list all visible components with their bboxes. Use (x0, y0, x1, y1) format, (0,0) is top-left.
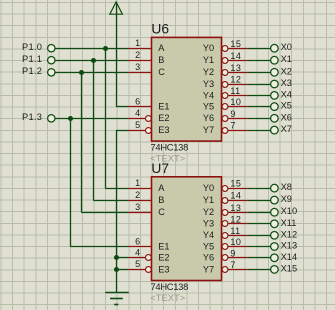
svg-text:Y7: Y7 (203, 264, 214, 274)
svg-text:14: 14 (230, 191, 241, 201)
svg-text:E3: E3 (158, 125, 169, 135)
wire Y4 to X4 (247, 95, 270, 97)
svg-text:P1.3: P1.3 (22, 112, 42, 122)
wire Y2 to X10 (247, 212, 270, 214)
svg-text:E1: E1 (158, 102, 169, 112)
pin 4 U7.E2 (129, 248, 170, 263)
svg-text:X3: X3 (281, 78, 292, 88)
svg-text:10: 10 (230, 97, 241, 107)
pin 6 U6.E1 (129, 96, 170, 111)
svg-text:Y3: Y3 (203, 219, 214, 229)
svg-text:Y1: Y1 (203, 55, 214, 65)
IC U6 74HC138 body (152, 37, 222, 141)
pin 2 U6.B (129, 50, 165, 65)
wire branch down to U7.A (105, 48, 128, 188)
svg-text:B: B (158, 195, 164, 205)
pin 12 U7.Y3 (203, 214, 247, 228)
svg-text:E1: E1 (158, 241, 169, 251)
pin 2 U7.B (129, 190, 165, 205)
wire VCC to U6.E1 (116, 3, 129, 107)
svg-text:14: 14 (230, 51, 241, 61)
svg-text:Y2: Y2 (203, 67, 214, 77)
pin 3 U6.C (129, 62, 166, 77)
svg-text:X1: X1 (281, 54, 292, 64)
svg-text:13: 13 (230, 203, 241, 213)
svg-text:Y0: Y0 (203, 43, 214, 53)
wire Y6 to X6 (247, 118, 270, 120)
terminal X13 (271, 241, 298, 251)
junction gnd net U7.E2 (114, 255, 119, 260)
terminal X5 (271, 101, 292, 111)
svg-text:10: 10 (230, 237, 241, 247)
pin 9 U7.Y6 (203, 248, 247, 262)
terminal X0 (271, 42, 292, 52)
terminal X15 (271, 263, 298, 273)
pin 10 U6.Y5 (203, 97, 247, 111)
junction P1.3 net (68, 116, 73, 121)
svg-text:P1.0: P1.0 (22, 42, 42, 52)
svg-text:7: 7 (230, 260, 235, 270)
pin 12 U6.Y3 (203, 75, 247, 89)
svg-text:74HC138: 74HC138 (151, 141, 189, 152)
svg-text:74HC138: 74HC138 (151, 281, 189, 292)
pin 6 U7.E1 (129, 236, 170, 251)
pin 15 U6.Y0 (203, 39, 247, 53)
svg-text:X14: X14 (281, 252, 298, 262)
pin 4 U6.E2 (129, 108, 170, 123)
svg-text:B: B (158, 55, 164, 65)
pin 11 U6.Y4 (203, 86, 247, 100)
terminal P1.2 (22, 66, 55, 76)
svg-text:X7: X7 (281, 124, 292, 134)
junction gnd net U7.E3 (114, 267, 119, 272)
svg-text:Y6: Y6 (203, 253, 214, 263)
svg-text:X8: X8 (281, 182, 292, 192)
svg-text:X10: X10 (281, 206, 298, 216)
svg-text:12: 12 (230, 214, 241, 224)
pin 13 U6.Y2 (203, 63, 247, 77)
terminal P1.0 (22, 42, 55, 52)
pin 5 U7.E3 (129, 259, 170, 274)
pin 3 U7.C (129, 202, 166, 217)
pin 15 U7.Y0 (203, 179, 247, 193)
svg-text:3: 3 (135, 202, 140, 212)
svg-text:15: 15 (230, 179, 241, 189)
terminal P1.1 (22, 54, 55, 64)
svg-text:9: 9 (230, 248, 235, 258)
wire Y3 to X3 (247, 84, 270, 86)
svg-text:X12: X12 (281, 229, 298, 239)
wire branch down to U7.E1 (70, 118, 129, 246)
wire Y7 to X15 (247, 269, 270, 271)
svg-text:P1.1: P1.1 (22, 54, 42, 64)
wire Y1 to X9 (247, 200, 270, 202)
wire P1.3 to U6.E2 (55, 118, 129, 120)
svg-text:A: A (158, 43, 165, 53)
wire Y2 to X2 (247, 72, 270, 74)
svg-text:1: 1 (135, 178, 140, 188)
svg-text:C: C (158, 67, 165, 77)
ground (105, 293, 129, 305)
pin 10 U7.Y5 (203, 237, 247, 251)
terminal X4 (271, 89, 292, 99)
svg-text:P1.2: P1.2 (22, 66, 42, 76)
wire Y6 to X14 (247, 257, 270, 259)
wire Y5 to X13 (247, 246, 270, 248)
svg-text:Y1: Y1 (203, 195, 214, 205)
pin 11 U7.Y4 (203, 226, 247, 240)
wire Y7 to X7 (247, 130, 270, 132)
svg-text:12: 12 (230, 75, 241, 85)
wire Y0 to X8 (247, 188, 270, 190)
wire ground net U6.E3 / U7.E2 / U7.E3 (116, 130, 129, 292)
terminal X10 (271, 206, 298, 216)
pin 7 U6.Y7 (203, 121, 247, 135)
svg-text:13: 13 (230, 63, 241, 73)
terminal X9 (271, 194, 292, 204)
svg-text:9: 9 (230, 109, 235, 119)
IC U7 74HC138 body (152, 177, 222, 281)
svg-text:Y0: Y0 (203, 183, 214, 193)
wire P1.2 to U6.C (55, 72, 129, 74)
svg-text:E2: E2 (158, 253, 169, 263)
svg-text:X0: X0 (281, 42, 292, 52)
svg-text:U7: U7 (151, 161, 169, 176)
svg-text:U6: U6 (151, 22, 169, 37)
svg-text:6: 6 (135, 236, 140, 246)
svg-text:5: 5 (135, 120, 140, 130)
svg-text:4: 4 (135, 108, 140, 118)
svg-text:Y3: Y3 (203, 79, 214, 89)
junction C net (79, 70, 84, 75)
svg-text:X5: X5 (281, 101, 292, 111)
terminal X12 (271, 229, 298, 239)
svg-text:Y6: Y6 (203, 113, 214, 123)
svg-text:A: A (158, 183, 165, 193)
svg-text:E3: E3 (158, 264, 169, 274)
power symbol VCC (110, 2, 123, 14)
svg-text:Y4: Y4 (203, 90, 214, 100)
svg-text:7: 7 (230, 121, 235, 131)
svg-text:15: 15 (230, 39, 241, 49)
pin 14 U6.Y1 (203, 51, 247, 65)
svg-text:E2: E2 (158, 113, 169, 123)
svg-text:X9: X9 (281, 194, 292, 204)
svg-text:3: 3 (135, 62, 140, 72)
svg-text:11: 11 (230, 86, 240, 96)
terminal X7 (271, 124, 292, 134)
svg-text:X4: X4 (281, 89, 292, 99)
svg-text:Y7: Y7 (203, 125, 214, 135)
svg-text:4: 4 (135, 248, 140, 258)
svg-text:Y2: Y2 (203, 207, 214, 217)
wire Y3 to X11 (247, 223, 270, 225)
wire Y0 to X0 (247, 48, 270, 50)
pin 5 U6.E3 (129, 120, 170, 135)
junction B net (91, 58, 96, 63)
svg-text:X11: X11 (281, 218, 297, 228)
svg-text:2: 2 (135, 190, 140, 200)
terminal X1 (271, 54, 292, 64)
svg-text:2: 2 (135, 50, 140, 60)
terminal X3 (271, 78, 292, 88)
wire Y5 to X5 (247, 106, 270, 108)
pin 13 U7.Y2 (203, 203, 247, 217)
wire branch down to U7.B (93, 60, 128, 200)
svg-text:X13: X13 (281, 241, 298, 251)
wire Y4 to X12 (247, 235, 270, 237)
terminal P1.3 (22, 112, 55, 122)
wire P1.0 to U6.A (55, 48, 129, 50)
svg-text:Y5: Y5 (203, 102, 214, 112)
terminal X2 (271, 66, 292, 76)
pin 1 U7.A (129, 178, 166, 193)
terminal X8 (271, 182, 292, 192)
svg-text:X2: X2 (281, 66, 292, 76)
wire P1.1 to U6.B (55, 60, 129, 62)
svg-text:11: 11 (230, 226, 240, 236)
junction A net (103, 46, 108, 51)
terminal X11 (271, 218, 297, 228)
svg-text:6: 6 (135, 96, 140, 106)
pin 9 U6.Y6 (203, 109, 247, 123)
svg-text:5: 5 (135, 259, 140, 269)
svg-text:C: C (158, 207, 165, 217)
terminal X14 (271, 252, 298, 262)
wire Y1 to X1 (247, 60, 270, 62)
svg-text:1: 1 (135, 38, 140, 48)
wire branch down to U7.C (81, 72, 128, 212)
svg-text:X15: X15 (281, 263, 298, 273)
pin 7 U7.Y7 (203, 260, 247, 274)
pin 1 U6.A (129, 38, 166, 53)
svg-text:Y5: Y5 (203, 241, 214, 251)
terminal X6 (271, 112, 292, 122)
svg-text:X6: X6 (281, 112, 292, 122)
svg-text:<TEXT>: <TEXT> (150, 292, 185, 303)
svg-text:Y4: Y4 (203, 230, 214, 240)
pin 14 U7.Y1 (203, 191, 247, 205)
